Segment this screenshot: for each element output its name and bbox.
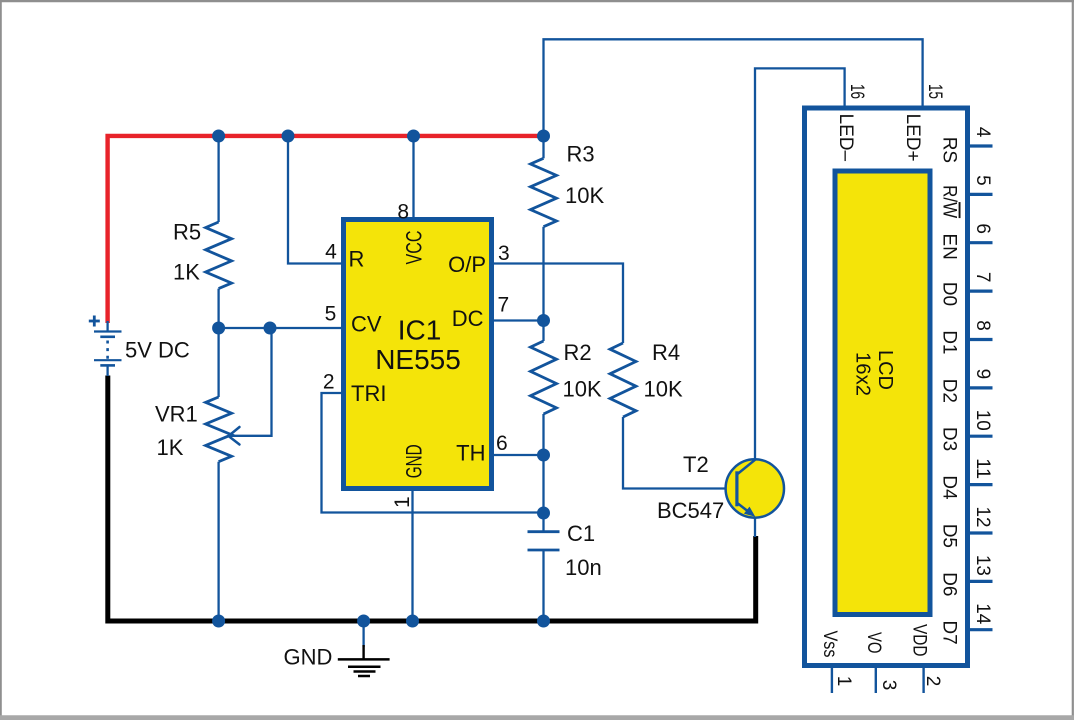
svg-text:1: 1 [391, 496, 414, 508]
svg-text:D5: D5 [939, 524, 960, 548]
svg-text:10n: 10n [565, 555, 602, 580]
svg-text:D0: D0 [939, 282, 960, 306]
svg-text:O/P: O/P [448, 252, 486, 277]
svg-text:4: 4 [972, 127, 993, 138]
svg-text:R2: R2 [564, 340, 592, 365]
svg-text:8: 8 [397, 201, 409, 224]
svg-text:5: 5 [972, 175, 993, 186]
svg-text:VCC: VCC [401, 230, 426, 264]
svg-text:R3: R3 [567, 142, 595, 167]
svg-text:BC547: BC547 [657, 498, 724, 523]
svg-text:RS: RS [939, 137, 960, 163]
svg-text:16x2: 16x2 [852, 352, 874, 396]
svg-text:TRI: TRI [351, 381, 386, 406]
svg-text:1K: 1K [173, 260, 200, 285]
svg-text:R: R [349, 247, 365, 272]
svg-text:VDD: VDD [909, 624, 930, 657]
svg-text:LED–: LED– [835, 114, 856, 162]
svg-text:DC: DC [452, 306, 484, 331]
svg-text:C1: C1 [567, 521, 595, 546]
svg-text:TH: TH [456, 441, 485, 466]
svg-text:1: 1 [833, 676, 854, 687]
svg-text:D3: D3 [939, 427, 960, 451]
svg-text:3: 3 [878, 680, 899, 691]
svg-text:D4: D4 [939, 475, 960, 500]
svg-text:EN: EN [939, 233, 960, 259]
svg-text:8: 8 [972, 320, 993, 331]
svg-text:D7: D7 [939, 620, 960, 644]
svg-text:11: 11 [972, 458, 993, 479]
svg-text:1K: 1K [157, 435, 184, 460]
svg-text:14: 14 [972, 603, 993, 624]
svg-text:VO: VO [863, 632, 884, 654]
svg-text:3: 3 [498, 242, 510, 265]
svg-text:9: 9 [972, 369, 993, 380]
svg-text:6: 6 [972, 223, 993, 234]
svg-text:T2: T2 [683, 452, 709, 477]
svg-text:5V DC: 5V DC [125, 338, 190, 363]
svg-text:2: 2 [323, 371, 335, 394]
svg-text:12: 12 [972, 507, 993, 528]
svg-text:VR1: VR1 [155, 402, 198, 427]
svg-text:IC1: IC1 [398, 315, 442, 346]
svg-text:LED+: LED+ [902, 114, 923, 162]
svg-text:10K: 10K [644, 377, 683, 402]
svg-text:4: 4 [325, 240, 337, 263]
svg-text:10K: 10K [563, 377, 602, 402]
svg-text:10K: 10K [565, 183, 604, 208]
svg-text:NE555: NE555 [375, 344, 461, 375]
svg-text:R/W: R/W [939, 185, 960, 218]
svg-text:D1: D1 [939, 330, 960, 354]
svg-text:13: 13 [972, 555, 993, 576]
svg-text:R4: R4 [652, 340, 680, 365]
svg-text:5: 5 [325, 302, 337, 325]
svg-text:7: 7 [972, 272, 993, 283]
svg-text:R5: R5 [173, 220, 201, 245]
svg-text:GND: GND [284, 645, 333, 670]
svg-text:15: 15 [924, 84, 945, 99]
svg-text:D6: D6 [939, 572, 960, 596]
svg-text:10: 10 [972, 410, 993, 431]
svg-text:16: 16 [846, 84, 867, 99]
svg-text:Vss: Vss [819, 631, 840, 658]
svg-text:7: 7 [498, 294, 510, 317]
svg-text:GND: GND [401, 444, 426, 478]
svg-text:D2: D2 [939, 379, 960, 403]
svg-text:LCD: LCD [874, 350, 896, 390]
svg-text:CV: CV [351, 312, 382, 337]
svg-text:6: 6 [496, 432, 508, 455]
svg-text:2: 2 [922, 676, 943, 687]
